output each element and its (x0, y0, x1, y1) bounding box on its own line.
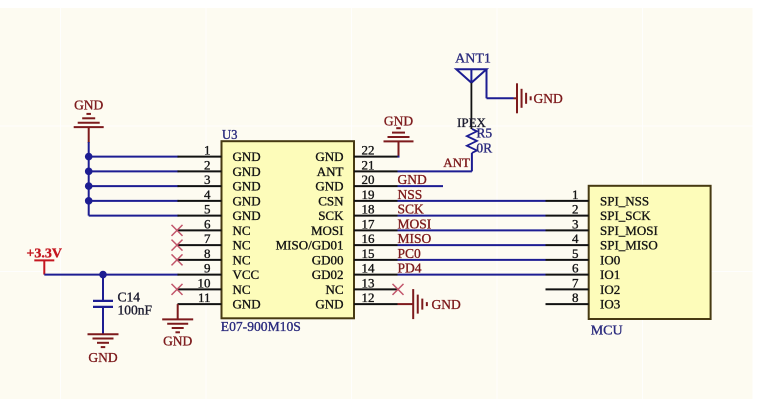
svg-text:GND: GND (534, 91, 563, 106)
svg-text:7: 7 (572, 275, 579, 290)
power port GND (below C14) (88, 334, 119, 365)
svg-text:SPI_MISO: SPI_MISO (600, 238, 658, 253)
svg-text:2: 2 (204, 157, 211, 172)
MCU pin 2 (SPI_SCK) (546, 202, 652, 224)
wire: GND bus to U3 pin 2 (89, 170, 179, 172)
svg-text:GND: GND (74, 98, 103, 113)
svg-text:16: 16 (362, 231, 376, 246)
wire: net MISO (398, 244, 546, 246)
U3 pin 9 (VCC) (178, 261, 260, 283)
wire: antenna to GND (487, 69, 518, 98)
U3 pin 18 (SCK) (318, 202, 397, 224)
svg-text:GND: GND (398, 172, 427, 187)
U3 pin 14 (GD02) (312, 261, 398, 283)
power port GND (top left) (74, 98, 104, 144)
capacitor C14 (93, 275, 113, 335)
U3 pin 11 (GND) (178, 290, 261, 312)
svg-text:GND: GND (233, 149, 261, 164)
svg-text:PD4: PD4 (398, 261, 422, 276)
svg-text:21: 21 (362, 157, 375, 172)
svg-text:SPI_SCK: SPI_SCK (600, 208, 651, 223)
svg-text:GND: GND (88, 350, 117, 365)
U3 pin 1 (GND) (178, 143, 261, 165)
svg-text:5: 5 (572, 246, 579, 261)
wire: +3.3V rail to U3 pin 9 (VCC) (44, 274, 178, 276)
svg-text:4: 4 (204, 187, 211, 202)
svg-text:GND: GND (233, 193, 261, 208)
svg-text:11: 11 (198, 290, 211, 305)
wire: GND bus to U3 pin 5 (89, 215, 179, 217)
svg-text:IO0: IO0 (600, 252, 620, 267)
U3 pin 7 (NC) (178, 231, 251, 253)
svg-text:GND: GND (233, 208, 261, 223)
svg-text:MISO/GD01: MISO/GD01 (276, 238, 344, 253)
MCU pin 5 (IO0) (546, 246, 621, 268)
svg-text:100nF: 100nF (118, 303, 153, 318)
svg-text:+3.3V: +3.3V (26, 247, 62, 262)
U3 pin 21 (ANT) (317, 157, 398, 179)
svg-text:IO2: IO2 (600, 282, 620, 297)
svg-text:NC: NC (233, 252, 251, 267)
svg-text:MOSI: MOSI (398, 216, 432, 231)
svg-text:9: 9 (204, 261, 211, 276)
svg-text:IO3: IO3 (600, 297, 620, 312)
wire: R5 to ANT net (398, 153, 472, 171)
svg-text:NC: NC (233, 282, 251, 297)
svg-text:GND: GND (315, 179, 343, 194)
svg-text:CSN: CSN (318, 193, 344, 208)
svg-text:NC: NC (325, 282, 343, 297)
no-connect X on U3 pin 7 (172, 240, 183, 251)
svg-text:IO1: IO1 (600, 267, 620, 282)
U3 pin 3 (GND) (178, 172, 261, 194)
svg-text:SCK: SCK (398, 202, 425, 217)
svg-text:1: 1 (204, 143, 211, 158)
power port GND (below U3 pin 11) (162, 304, 193, 348)
U3 pin 4 (GND) (178, 187, 261, 209)
svg-text:PC0: PC0 (398, 246, 422, 261)
svg-text:GD02: GD02 (312, 267, 344, 282)
svg-text:NSS: NSS (398, 187, 423, 202)
MCU pin 6 (IO1) (546, 261, 621, 283)
svg-text:6: 6 (572, 261, 579, 276)
wire: net SCK (398, 215, 546, 217)
U3 pin 19 (CSN) (318, 187, 397, 209)
MCU pin 7 (IO2) (546, 275, 621, 297)
svg-text:GND: GND (233, 297, 261, 312)
svg-text:MISO: MISO (398, 231, 432, 246)
U3 pin 15 (GD00) (312, 246, 398, 268)
svg-text:8: 8 (572, 290, 579, 305)
svg-text:0R: 0R (476, 140, 492, 155)
MCU pin 3 (SPI_MOSI) (546, 216, 658, 238)
U3 pin 5 (GND) (178, 202, 261, 224)
U3 pin 6 (NC) (178, 216, 251, 238)
no-connect X on U3 pin 13 (393, 284, 404, 295)
wire: net PC0 (398, 259, 546, 261)
svg-text:15: 15 (362, 246, 375, 261)
wire: GND bus vertical (88, 142, 90, 216)
U3 pin 10 (NC) (178, 275, 251, 297)
U3 pin 20 (GND) (315, 172, 397, 194)
svg-text:ANT1: ANT1 (455, 52, 491, 67)
svg-text:4: 4 (572, 231, 579, 246)
svg-text:GND: GND (233, 179, 261, 194)
U3 pin 12 (GND) (315, 290, 397, 312)
wire: net NSS (398, 200, 546, 202)
svg-text:GND: GND (163, 334, 192, 349)
svg-text:U3: U3 (222, 127, 238, 142)
no-connect X on U3 pin 10 (172, 284, 183, 295)
svg-text:GND: GND (432, 297, 461, 312)
wire: net PD4 (398, 274, 546, 276)
wire: GND bus to U3 pin 3 (89, 185, 179, 187)
svg-text:E07-900M10S: E07-900M10S (221, 319, 301, 334)
junction: GND bus row 4 (85, 197, 93, 205)
svg-text:8: 8 (204, 246, 211, 261)
svg-text:VCC: VCC (233, 267, 260, 282)
svg-text:NC: NC (233, 238, 251, 253)
svg-text:NC: NC (233, 223, 251, 238)
MCU pin 4 (SPI_MISO) (546, 231, 658, 253)
power port +3.3V (26, 247, 62, 275)
junction: GND bus row 2 (85, 168, 93, 176)
power port GND (above U3 pin 22) (384, 114, 414, 157)
svg-text:2: 2 (572, 202, 579, 217)
svg-text:GND: GND (233, 164, 261, 179)
svg-text:10: 10 (198, 275, 211, 290)
svg-text:MOSI: MOSI (311, 223, 344, 238)
power port GND (U3 pin 12) (398, 289, 461, 319)
svg-text:SPI_NSS: SPI_NSS (600, 193, 649, 208)
junction: +3.3V rail / C14 (99, 271, 107, 279)
svg-text:22: 22 (362, 143, 375, 158)
IC MCU body (589, 186, 711, 319)
svg-text:GND: GND (315, 297, 343, 312)
power port GND (antenna shield) (517, 83, 563, 113)
svg-text:GND: GND (315, 149, 343, 164)
svg-text:GD00: GD00 (312, 252, 344, 267)
svg-text:13: 13 (362, 275, 375, 290)
U3 pin 17 (MOSI) (311, 216, 398, 238)
svg-text:R5: R5 (476, 126, 492, 141)
antenna ANT1 (456, 69, 486, 129)
svg-text:7: 7 (204, 231, 211, 246)
no-connect X on U3 pin 8 (172, 254, 183, 265)
resistor R5 (467, 129, 477, 153)
MCU pin 8 (IO3) (546, 290, 621, 312)
junction: GND bus row 3 (85, 182, 93, 190)
svg-text:19: 19 (362, 187, 375, 202)
U3 pin 22 (GND) (315, 143, 397, 165)
U3 pin 16 (MISO/GD01) (276, 231, 398, 253)
svg-text:17: 17 (362, 216, 376, 231)
svg-text:12: 12 (362, 290, 375, 305)
svg-text:18: 18 (362, 202, 375, 217)
svg-text:5: 5 (204, 202, 211, 217)
svg-text:14: 14 (362, 261, 376, 276)
MCU pin 1 (SPI_NSS) (546, 187, 650, 209)
wire: GND bus to U3 pin 1 (89, 156, 179, 158)
svg-text:6: 6 (204, 216, 211, 231)
U3 pin 2 (GND) (178, 157, 261, 179)
no-connect X on U3 pin 6 (172, 225, 183, 236)
svg-text:3: 3 (204, 172, 211, 187)
wire: net MOSI (398, 229, 546, 231)
svg-text:SCK: SCK (318, 208, 344, 223)
wire: U3 pin 22 stub (398, 156, 400, 158)
junction: GND bus row 1 (85, 153, 93, 161)
svg-text:MCU: MCU (591, 324, 623, 339)
svg-text:ANT: ANT (317, 164, 344, 179)
svg-text:3: 3 (572, 216, 579, 231)
svg-text:SPI_MOSI: SPI_MOSI (600, 223, 658, 238)
svg-text:GND: GND (384, 114, 413, 129)
svg-text:1: 1 (572, 187, 579, 202)
wire: GND bus to U3 pin 4 (89, 200, 179, 202)
svg-text:ANT: ANT (443, 155, 470, 170)
svg-text:20: 20 (362, 172, 375, 187)
IC U3 (222, 141, 355, 318)
wire: net GND (398, 185, 444, 187)
U3 pin 13 (NC) (325, 275, 397, 297)
U3 pin 8 (NC) (178, 246, 251, 268)
